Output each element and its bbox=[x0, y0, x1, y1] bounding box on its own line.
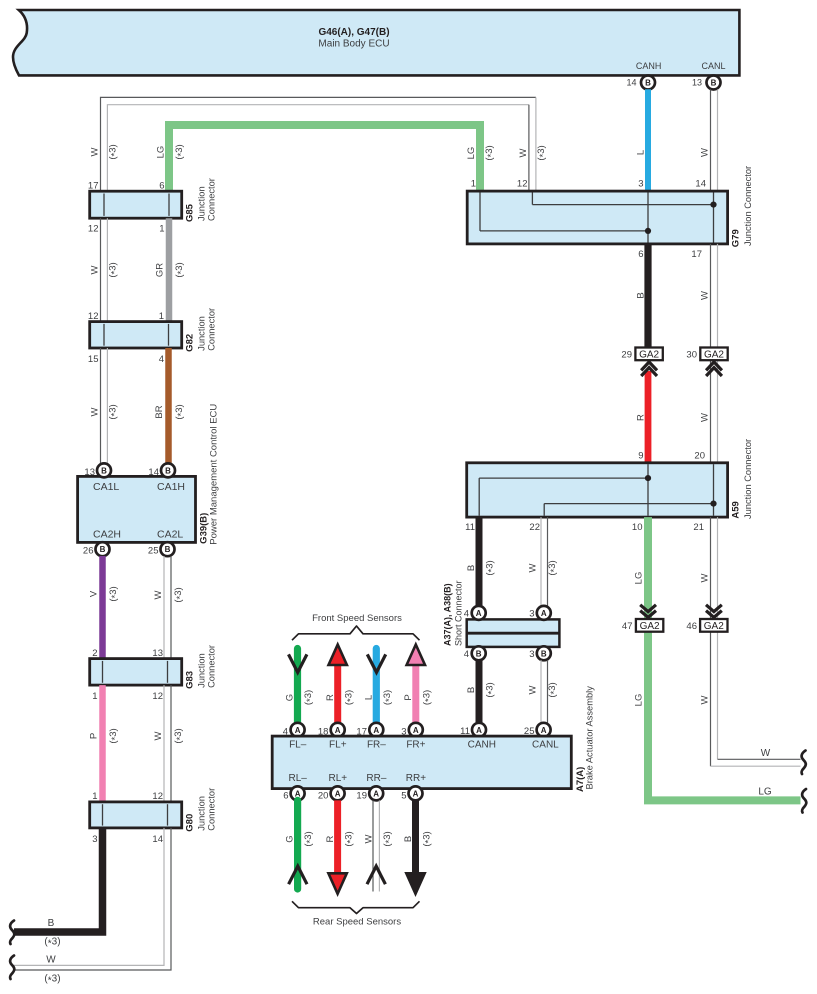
short connector pin 4 (B) bbox=[472, 646, 486, 660]
G39 pin 26 (B) bbox=[96, 542, 110, 556]
wire W break symbol right bbox=[802, 751, 806, 775]
svg-text:CA1H: CA1H bbox=[157, 481, 185, 493]
svg-text:Connector: Connector bbox=[206, 645, 216, 688]
svg-text:30: 30 bbox=[686, 350, 697, 361]
A59 junction dot pin9 bus bbox=[645, 475, 651, 481]
rear speed sensors brace bbox=[292, 901, 420, 913]
A59 internal bus pin11-pin9 bbox=[478, 478, 480, 516]
A7 pin 4 (A) bbox=[291, 723, 305, 737]
G39 pin 14 (B) bbox=[161, 463, 175, 477]
ECU G46(A)/G47(B) Main Body ECU box bbox=[13, 10, 739, 75]
svg-text:29: 29 bbox=[621, 350, 632, 361]
svg-text:13: 13 bbox=[84, 467, 95, 478]
A59 internal line pin20-pin21 bbox=[713, 464, 715, 516]
svg-text:20: 20 bbox=[694, 450, 705, 461]
svg-text:R: R bbox=[325, 694, 336, 701]
svg-text:W: W bbox=[89, 407, 100, 416]
svg-text:Connector: Connector bbox=[206, 788, 216, 831]
svg-text:B: B bbox=[165, 545, 171, 554]
svg-text:CANH: CANH bbox=[468, 740, 496, 751]
svg-text:6: 6 bbox=[159, 181, 164, 192]
wire W from G79 pin 17 through ground 30 to A59 pin 20 bbox=[710, 244, 712, 463]
svg-text:LG: LG bbox=[758, 786, 772, 797]
wire R rear-left sensor from A7 pin 20 (arrow out) bbox=[334, 800, 341, 875]
A7 pin 18 (A) bbox=[331, 723, 345, 737]
wire B rear-right sensor from A7 pin 5 (arrow out) bbox=[412, 800, 419, 875]
svg-text:(*3): (*3) bbox=[343, 690, 356, 705]
svg-text:G46(A), G47(B): G46(A), G47(B) bbox=[318, 27, 389, 38]
A7 pin 25 (A) bbox=[537, 723, 551, 737]
svg-text:GR: GR bbox=[154, 263, 165, 277]
A59 junction dot pin21 bus bbox=[710, 501, 716, 507]
wire W from A59 pin 22 to short connector pin 3A bbox=[540, 517, 542, 606]
A7 pin 19 (A) bbox=[369, 786, 383, 800]
ground 29 chevrons bbox=[641, 362, 657, 370]
svg-text:W: W bbox=[364, 834, 375, 843]
svg-text:12: 12 bbox=[152, 691, 163, 702]
wire W rear-right sensor to A7 pin 19 (arrow in) bbox=[372, 800, 374, 891]
svg-text:LG: LG bbox=[634, 572, 645, 585]
svg-text:47: 47 bbox=[622, 621, 633, 632]
svg-text:(*3): (*3) bbox=[108, 728, 121, 743]
wire LG from G85 pin 6 to G79 pin 1 bbox=[169, 125, 480, 191]
svg-text:B: B bbox=[711, 79, 717, 88]
wire P from G83 pin 1 to G80 pin 1 bbox=[99, 685, 106, 802]
svg-text:(*3): (*3) bbox=[174, 404, 187, 419]
svg-text:14: 14 bbox=[152, 834, 163, 845]
svg-text:G79: G79 bbox=[731, 229, 742, 247]
svg-text:(*3): (*3) bbox=[174, 144, 187, 159]
svg-text:P: P bbox=[89, 733, 100, 739]
svg-text:A: A bbox=[541, 609, 547, 618]
svg-text:22: 22 bbox=[529, 522, 540, 533]
wire W from G80 pin 14 to left edge bbox=[14, 828, 164, 966]
svg-text:(*3): (*3) bbox=[303, 831, 316, 846]
svg-text:11: 11 bbox=[465, 522, 475, 533]
svg-text:(*3): (*3) bbox=[536, 145, 549, 160]
svg-text:5: 5 bbox=[401, 790, 406, 801]
wire B from G80 pin 3 to left edge bbox=[14, 828, 103, 932]
svg-text:W: W bbox=[700, 695, 711, 704]
svg-text:Connector: Connector bbox=[206, 308, 216, 351]
svg-text:1: 1 bbox=[92, 691, 97, 702]
svg-text:V: V bbox=[89, 590, 100, 597]
svg-text:L: L bbox=[636, 150, 647, 155]
svg-text:Junction: Junction bbox=[197, 653, 207, 688]
svg-text:10: 10 bbox=[632, 522, 643, 533]
svg-text:RL–: RL– bbox=[289, 773, 308, 784]
svg-text:FL–: FL– bbox=[289, 740, 307, 751]
svg-text:Junction: Junction bbox=[197, 316, 207, 351]
ground point 30 GA2 bbox=[700, 348, 727, 361]
short connector pin 3 (A) bbox=[537, 606, 551, 620]
svg-text:12: 12 bbox=[517, 179, 528, 190]
svg-text:Front Speed Sensors: Front Speed Sensors bbox=[312, 613, 402, 624]
svg-text:6: 6 bbox=[638, 249, 643, 260]
wire BR from G82 pin 4 to G39 pin 14 bbox=[165, 348, 172, 464]
svg-text:4: 4 bbox=[464, 609, 469, 620]
ground 46 chevrons bbox=[706, 605, 722, 612]
svg-text:CANL: CANL bbox=[532, 740, 559, 751]
svg-text:12: 12 bbox=[88, 311, 99, 322]
svg-text:26: 26 bbox=[83, 546, 94, 557]
svg-text:B: B bbox=[101, 466, 107, 475]
svg-text:FR+: FR+ bbox=[406, 740, 425, 751]
svg-text:(*3): (*3) bbox=[174, 262, 187, 277]
svg-text:14: 14 bbox=[695, 179, 706, 190]
svg-text:RR+: RR+ bbox=[406, 773, 426, 784]
svg-text:GA2: GA2 bbox=[704, 350, 724, 361]
wire W from G39 pin 25 to G83 pin 13 bbox=[163, 556, 165, 659]
svg-text:2: 2 bbox=[92, 648, 97, 659]
svg-text:P: P bbox=[403, 694, 414, 700]
svg-text:A59: A59 bbox=[731, 501, 742, 518]
svg-text:W: W bbox=[528, 685, 539, 694]
wire B from A59 pin 11 to short connector pin 4A bbox=[476, 517, 483, 606]
svg-text:W: W bbox=[89, 147, 100, 156]
svg-text:B: B bbox=[165, 466, 171, 475]
junction connector G83 bbox=[90, 659, 182, 686]
svg-text:12: 12 bbox=[152, 791, 163, 802]
svg-text:(*3): (*3) bbox=[485, 560, 498, 575]
svg-text:4: 4 bbox=[464, 649, 469, 660]
pin 14 (B) of Main Body ECU bbox=[641, 76, 655, 90]
svg-text:B: B bbox=[100, 545, 106, 554]
A59 internal line pin9-pin10 bbox=[647, 464, 649, 516]
svg-text:CA2L: CA2L bbox=[157, 529, 183, 541]
svg-text:1: 1 bbox=[159, 311, 164, 322]
svg-text:15: 15 bbox=[88, 354, 99, 365]
junction connector G80 bbox=[90, 802, 182, 828]
svg-text:Rear Speed Sensors: Rear Speed Sensors bbox=[313, 917, 401, 928]
svg-text:14: 14 bbox=[148, 467, 159, 478]
svg-text:(*3): (*3) bbox=[422, 690, 435, 705]
svg-text:A: A bbox=[476, 609, 482, 618]
A7 pin 20 (A) bbox=[331, 786, 345, 800]
svg-text:FR–: FR– bbox=[367, 740, 386, 751]
svg-text:CA2H: CA2H bbox=[93, 529, 121, 541]
wire P front-right sensor from A7 pin 3 (arrow out) bbox=[412, 661, 419, 723]
svg-text:GA2: GA2 bbox=[639, 350, 659, 361]
svg-text:(*3): (*3) bbox=[108, 404, 121, 419]
svg-text:A: A bbox=[476, 726, 482, 735]
A7 pin 3 (A) bbox=[409, 723, 423, 737]
A7 pin 6 (A) bbox=[291, 786, 305, 800]
svg-text:B: B bbox=[466, 687, 477, 693]
svg-text:19: 19 bbox=[356, 790, 367, 801]
svg-text:W: W bbox=[761, 748, 771, 759]
svg-text:W: W bbox=[518, 148, 529, 157]
svg-text:A: A bbox=[373, 789, 379, 798]
G79 internal line pin3-pin6 bbox=[647, 192, 649, 242]
A7 pin 11 (A) bbox=[472, 723, 486, 737]
svg-text:GA2: GA2 bbox=[704, 621, 724, 632]
svg-text:A: A bbox=[413, 789, 419, 798]
svg-text:A: A bbox=[541, 726, 547, 735]
front speed sensors brace bbox=[292, 626, 420, 640]
svg-text:17: 17 bbox=[88, 181, 99, 192]
svg-text:1: 1 bbox=[159, 224, 164, 235]
svg-text:R: R bbox=[636, 414, 647, 421]
wire LG break symbol right bbox=[802, 789, 806, 813]
ECU G39(B) Power Management Control ECU box bbox=[78, 476, 196, 542]
ground point 46 GA2 bbox=[700, 619, 727, 632]
junction connector G85 bbox=[90, 191, 182, 218]
svg-text:14: 14 bbox=[626, 78, 636, 88]
svg-text:(*3): (*3) bbox=[44, 937, 60, 950]
G79 internal line pin14-pin17 bbox=[713, 192, 715, 242]
svg-text:LG: LG bbox=[466, 147, 477, 160]
svg-text:1: 1 bbox=[92, 791, 97, 802]
wire GR from G85 pin 1 to G82 pin 1 bbox=[166, 218, 173, 321]
wire B break symbol bbox=[10, 921, 14, 945]
ground point 29 GA2 bbox=[635, 348, 662, 361]
wire B from G79 pin 6 to ground 29 bbox=[644, 244, 651, 348]
svg-text:CA1L: CA1L bbox=[93, 481, 119, 493]
svg-text:W: W bbox=[699, 413, 710, 422]
short connector A37(A)/A38(B) bbox=[467, 619, 560, 647]
svg-text:Junction Connector: Junction Connector bbox=[743, 439, 753, 519]
svg-text:46: 46 bbox=[686, 621, 697, 632]
svg-text:(*3): (*3) bbox=[173, 587, 186, 602]
A59 internal bus pin22-pin21 bbox=[543, 504, 545, 516]
wire B from short connector pin 4B to A7 pin 11 bbox=[476, 660, 483, 723]
wire R front-left sensor from A7 pin 18 (arrow out) bbox=[334, 661, 341, 723]
svg-text:B: B bbox=[466, 565, 477, 571]
svg-text:A: A bbox=[335, 726, 341, 735]
svg-text:4: 4 bbox=[159, 354, 164, 365]
svg-text:B: B bbox=[636, 292, 647, 298]
svg-text:Junction: Junction bbox=[197, 186, 207, 221]
svg-text:L: L bbox=[364, 695, 375, 700]
pin 13 (B) of Main Body ECU bbox=[707, 76, 721, 90]
svg-text:FL+: FL+ bbox=[329, 740, 347, 751]
svg-text:(*3): (*3) bbox=[343, 831, 356, 846]
wire W from G83 pin 12 to G80 pin 12 bbox=[163, 685, 165, 802]
svg-text:W: W bbox=[46, 955, 56, 966]
A7 pin 5 (A) bbox=[409, 786, 423, 800]
svg-text:13: 13 bbox=[692, 78, 702, 88]
G39 pin 25 (B) bbox=[161, 542, 175, 556]
G79 internal bus pin1-pin3 bbox=[479, 192, 481, 231]
wire V from G39 pin 26 to G83 pin 2 bbox=[99, 556, 106, 659]
svg-text:3: 3 bbox=[638, 179, 643, 190]
G79 junction dot pin14 bus bbox=[710, 202, 716, 208]
svg-text:G: G bbox=[285, 835, 296, 842]
svg-text:G80: G80 bbox=[185, 814, 196, 832]
svg-text:W: W bbox=[700, 573, 711, 582]
wire W from A59 pin 21 through ground 46 to right edge bbox=[717, 517, 719, 759]
ground point 47 GA2 bbox=[636, 619, 663, 632]
wire W from short connector pin 3B to A7 pin 25 bbox=[540, 660, 542, 723]
svg-text:(*3): (*3) bbox=[484, 145, 497, 160]
svg-text:LG: LG bbox=[634, 694, 645, 707]
svg-text:B: B bbox=[403, 836, 414, 842]
junction connector G82 bbox=[90, 322, 182, 348]
wire W from G82 pin 15 to G39 pin 13 bbox=[100, 348, 102, 464]
svg-text:1: 1 bbox=[471, 179, 476, 190]
svg-text:(*3): (*3) bbox=[108, 144, 121, 159]
svg-text:20: 20 bbox=[318, 790, 329, 801]
ground 30 chevrons bbox=[706, 362, 722, 370]
svg-text:(*3): (*3) bbox=[44, 974, 60, 987]
svg-text:(*3): (*3) bbox=[422, 831, 435, 846]
svg-text:Power Management Control ECU: Power Management Control ECU bbox=[208, 404, 219, 545]
svg-text:B: B bbox=[48, 918, 55, 929]
svg-text:3: 3 bbox=[92, 834, 97, 845]
svg-text:R: R bbox=[325, 835, 336, 842]
svg-text:B: B bbox=[541, 649, 547, 658]
svg-text:W: W bbox=[699, 148, 710, 157]
svg-text:A: A bbox=[413, 726, 419, 735]
svg-text:BR: BR bbox=[154, 405, 165, 418]
svg-text:(*3): (*3) bbox=[485, 682, 498, 697]
svg-text:W: W bbox=[699, 291, 710, 300]
wire W from G85 pin 12 to G82 pin 12 bbox=[100, 218, 102, 321]
G79 junction dot pin3 bus bbox=[645, 228, 651, 234]
svg-text:25: 25 bbox=[148, 546, 159, 557]
svg-text:A: A bbox=[335, 789, 341, 798]
svg-text:(*3): (*3) bbox=[108, 586, 121, 601]
svg-text:LG: LG bbox=[156, 146, 167, 159]
svg-text:GA2: GA2 bbox=[640, 621, 660, 632]
svg-text:(*3): (*3) bbox=[547, 682, 560, 697]
wire W from G46 pin 13 to G79 pin 14 bbox=[710, 89, 712, 191]
svg-text:G: G bbox=[285, 694, 296, 701]
svg-text:Junction Connector: Junction Connector bbox=[743, 166, 753, 246]
svg-text:CANL: CANL bbox=[701, 61, 725, 71]
svg-text:A37(A), A38(B): A37(A), A38(B) bbox=[443, 583, 453, 646]
svg-text:Junction: Junction bbox=[197, 796, 207, 831]
wire L from G46 pin 14 to G79 pin 3 bbox=[645, 89, 651, 191]
svg-text:A: A bbox=[295, 726, 301, 735]
svg-text:W: W bbox=[528, 563, 539, 572]
svg-text:3: 3 bbox=[529, 649, 534, 660]
svg-text:Short Connector: Short Connector bbox=[454, 580, 464, 646]
svg-text:21: 21 bbox=[693, 522, 704, 533]
junction connector G79 bbox=[467, 191, 727, 244]
svg-text:(*3): (*3) bbox=[547, 560, 560, 575]
svg-text:3: 3 bbox=[529, 609, 534, 620]
G79 internal bus pin12-pin14 bbox=[531, 192, 533, 204]
wire W loop from G85 pin 17 to G79 pin 12 (inner line) bbox=[107, 105, 529, 192]
svg-text:(*3): (*3) bbox=[382, 690, 395, 705]
G39 pin 13 (B) bbox=[97, 463, 111, 477]
wire W break symbol bbox=[10, 956, 14, 980]
wire W loop from G85 pin 17 to G79 pin 12 (outer line) bbox=[101, 97, 536, 191]
svg-text:13: 13 bbox=[152, 648, 163, 659]
svg-text:G83: G83 bbox=[185, 671, 196, 689]
svg-text:W: W bbox=[153, 590, 164, 599]
svg-text:12: 12 bbox=[88, 224, 99, 235]
wire LG from ground 47 to right edge bbox=[648, 633, 801, 801]
svg-text:Brake Actuator Assembly: Brake Actuator Assembly bbox=[585, 686, 595, 790]
junction connector A59 bbox=[467, 463, 728, 517]
svg-text:CANH: CANH bbox=[636, 61, 662, 71]
svg-text:(*3): (*3) bbox=[382, 831, 395, 846]
wire L front-right sensor to A7 pin 17 (arrow in) bbox=[373, 649, 380, 723]
svg-text:Connector: Connector bbox=[206, 178, 216, 221]
svg-text:(*3): (*3) bbox=[173, 728, 186, 743]
wire R from ground 29 to A59 pin 9 bbox=[645, 371, 652, 463]
svg-text:9: 9 bbox=[638, 450, 643, 461]
svg-text:(*3): (*3) bbox=[108, 262, 121, 277]
svg-text:Main Body ECU: Main Body ECU bbox=[318, 39, 389, 50]
svg-text:6: 6 bbox=[283, 790, 288, 801]
svg-text:G85: G85 bbox=[185, 203, 196, 222]
svg-text:(*3): (*3) bbox=[303, 690, 316, 705]
wire LG from A59 pin 10 to ground 47 bbox=[644, 517, 652, 633]
short connector pin 3 (B) bbox=[537, 646, 551, 660]
wire G front-left sensor to A7 pin 4 (arrow in) bbox=[294, 649, 301, 723]
svg-text:B: B bbox=[645, 79, 651, 88]
svg-text:17: 17 bbox=[691, 249, 702, 260]
svg-text:G82: G82 bbox=[185, 334, 196, 352]
svg-text:RL+: RL+ bbox=[328, 773, 347, 784]
A7 pin 17 (A) bbox=[369, 723, 383, 737]
ground 47 chevrons bbox=[640, 605, 656, 612]
svg-text:RR–: RR– bbox=[366, 773, 386, 784]
wire G rear-left sensor to A7 pin 6 (arrow in) bbox=[294, 800, 301, 889]
svg-text:W: W bbox=[153, 731, 164, 740]
svg-text:W: W bbox=[89, 265, 100, 274]
short connector pin 4 (A) bbox=[472, 606, 486, 620]
svg-text:B: B bbox=[476, 649, 482, 658]
ECU A7(A) Brake Actuator Assembly box bbox=[272, 736, 571, 789]
svg-text:A: A bbox=[373, 726, 379, 735]
